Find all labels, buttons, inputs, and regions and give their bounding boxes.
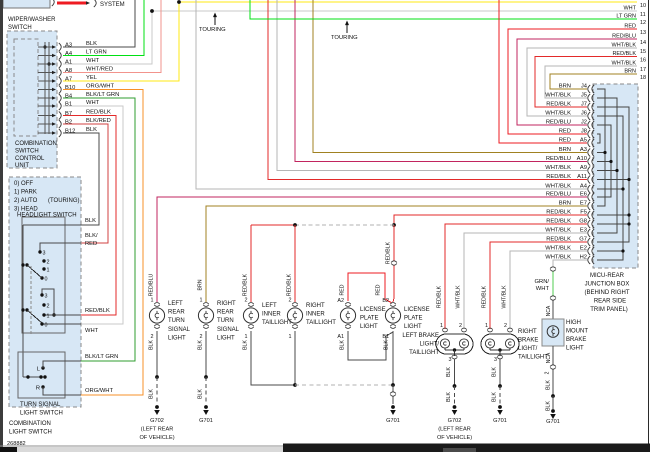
svg-text:WHT: WHT <box>86 100 100 106</box>
high mount connector from H2 <box>550 267 555 271</box>
TOURING arrow 2 <box>345 21 349 26</box>
svg-text:LIGHT: LIGHT <box>404 324 422 330</box>
svg-text:BRN: BRN <box>624 69 636 75</box>
svg-text:2: 2 <box>47 260 50 266</box>
junction box pin A9 (WHT/BLK) <box>588 167 590 175</box>
svg-text:SWITCH: SWITCH <box>8 25 32 31</box>
svg-text:SIGNAL: SIGNAL <box>217 327 240 333</box>
wire RED/BLK pin16 to J7 <box>535 57 637 108</box>
svg-text:BLK: BLK <box>492 367 498 377</box>
svg-text:BLK/LT GRN: BLK/LT GRN <box>85 354 118 360</box>
pin B4 (BLK/LT GRN) of wiper/washer switch <box>38 97 52 99</box>
svg-text:J8: J8 <box>581 129 587 135</box>
pin A1 (WHT) of wiper/washer switch <box>38 63 52 65</box>
junction box internal bus J5-A9-E3 <box>597 98 617 233</box>
svg-text:1: 1 <box>151 298 154 304</box>
svg-text:OF VEHICLE): OF VEHICLE) <box>437 435 472 441</box>
svg-text:J7: J7 <box>581 102 587 108</box>
svg-text:LEFT: LEFT <box>168 301 183 307</box>
junction box pin A5 (RED) <box>588 139 590 147</box>
wire RED/BLU from top edge to pin A10 <box>295 0 587 162</box>
wire YEL from A7 to pin 10 at right edge <box>63 2 637 81</box>
wire LT GRN from top edge to pin 12 right edge <box>250 0 637 19</box>
wire BLK license 1 to license 2 <box>348 331 393 360</box>
svg-text:RED/BLK: RED/BLK <box>287 273 293 296</box>
junction box pin A11 (RED/BLK) <box>588 176 590 184</box>
headlight switch bank2 contacts <box>40 293 43 296</box>
svg-text:A4: A4 <box>65 51 73 57</box>
svg-text:RED/BLK: RED/BLK <box>482 285 488 308</box>
svg-text:3: 3 <box>449 357 452 363</box>
svg-text:B4: B4 <box>65 94 73 100</box>
svg-text:G702: G702 <box>150 418 164 424</box>
svg-text:BLK: BLK <box>546 380 552 390</box>
svg-text:2: 2 <box>545 371 551 374</box>
svg-text:LICENSE: LICENSE <box>360 307 386 313</box>
svg-text:A10: A10 <box>577 156 587 162</box>
brake light bulbs <box>440 339 449 348</box>
svg-text:11: 11 <box>640 12 646 18</box>
headlight switch bank2 jog wire contact3 <box>42 289 54 315</box>
svg-text:BRAKE: BRAKE <box>566 337 586 343</box>
svg-text:B7: B7 <box>65 111 72 117</box>
svg-text:RED/BLU: RED/BLU <box>149 274 155 297</box>
brake light pin arcs <box>442 328 448 330</box>
junction box internal wiring J8-A5 <box>597 134 600 143</box>
svg-text:E7: E7 <box>580 201 587 207</box>
svg-text:TAILLIGHT: TAILLIGHT <box>409 350 439 356</box>
svg-text:B1: B1 <box>382 334 389 340</box>
svg-text:PLATE: PLATE <box>404 316 423 322</box>
svg-text:1: 1 <box>440 323 443 329</box>
junction box internal bus J4-A3-E7 <box>597 89 605 206</box>
svg-text:E2: E2 <box>580 246 587 252</box>
left page border bar <box>0 0 3 447</box>
wire BLK below license 2 <box>392 331 394 385</box>
svg-text:LIGHT/: LIGHT/ <box>420 342 440 348</box>
svg-text:(LEFT REAR: (LEFT REAR <box>141 427 174 433</box>
wire to high mount brake light <box>552 301 554 320</box>
wire WHT/BLK from top edge to pin A9 <box>277 0 587 171</box>
svg-text:1) PARK: 1) PARK <box>14 190 37 196</box>
svg-text:RED/BLK: RED/BLK <box>243 273 249 296</box>
svg-text:WHT/BLK: WHT/BLK <box>545 93 571 99</box>
svg-text:G701: G701 <box>199 418 213 424</box>
svg-text:G702: G702 <box>448 418 462 424</box>
wire RED/BLU pin E6 to left rear turn signal light <box>157 197 587 302</box>
svg-text:RED/BLU: RED/BLU <box>546 192 571 198</box>
svg-text:14: 14 <box>640 40 646 46</box>
headlight switch box <box>22 217 65 333</box>
svg-text:WHT: WHT <box>536 286 550 292</box>
brake light pin 3 <box>452 355 458 357</box>
wire RED to SYSTEM (off-page arrow) <box>57 2 87 5</box>
svg-text:A11: A11 <box>577 174 587 180</box>
svg-text:3: 3 <box>494 357 497 363</box>
turn signal internal wire L <box>43 361 81 368</box>
wire ORG/WHT from B10 down to turn signal switch R <box>63 90 143 396</box>
svg-text:0: 0 <box>45 277 48 283</box>
wire RED/BLU pin14 to J2 <box>517 39 637 125</box>
svg-text:2: 2 <box>504 323 507 329</box>
svg-text:BLK: BLK <box>340 340 346 350</box>
pin B10 (ORG/WHT) of wiper/washer switch <box>38 89 52 91</box>
svg-text:LIGHT: LIGHT <box>360 324 378 330</box>
svg-text:WHT/BLK: WHT/BLK <box>612 61 637 67</box>
junction box pin A4 (WHT/BLK) <box>588 185 590 193</box>
svg-text:HIGH: HIGH <box>566 320 581 326</box>
svg-text:INNER: INNER <box>306 312 325 318</box>
svg-text:(LEFT REAR: (LEFT REAR <box>438 427 471 433</box>
svg-text:NCA: NCA <box>546 352 552 363</box>
junction box pin E7 (BRN) <box>588 202 590 210</box>
brake light bulbs <box>485 339 494 348</box>
dashed splice wire <box>295 224 394 226</box>
junction box internal bus J2-A10-E6 <box>597 125 611 197</box>
wire WHT/BLK pin15 to J6 <box>527 48 637 116</box>
svg-text:2: 2 <box>200 334 203 340</box>
svg-text:WHT/RED: WHT/RED <box>86 67 113 73</box>
svg-text:PLATE: PLATE <box>360 316 379 322</box>
svg-text:RED/BLK: RED/BLK <box>86 110 111 116</box>
svg-text:WHT: WHT <box>86 58 100 64</box>
svg-text:B12: B12 <box>65 129 75 135</box>
svg-text:LIGHT: LIGHT <box>168 335 186 341</box>
MICU-REAR junction box dashed outline <box>593 84 638 268</box>
headlight switch bank1 contacts <box>38 250 41 253</box>
svg-text:JUNCTION BOX: JUNCTION BOX <box>585 282 630 288</box>
junction box pin A3 (BRN) <box>588 149 590 157</box>
svg-text:REAR: REAR <box>217 310 234 316</box>
svg-text:RED/BLK: RED/BLK <box>546 210 571 216</box>
svg-text:13: 13 <box>640 30 646 36</box>
svg-text:BLK: BLK <box>384 340 390 350</box>
svg-text:BLK: BLK <box>86 127 97 133</box>
wire RED/BLK pin F5 to license plate lights <box>394 215 587 260</box>
svg-text:E3: E3 <box>580 228 587 234</box>
svg-text:BLK/: BLK/ <box>85 233 98 239</box>
turn signal switch contact R <box>41 385 44 388</box>
dashed BLK to G702 <box>156 377 158 404</box>
svg-text:E6: E6 <box>580 192 587 198</box>
junction dot license ground <box>391 383 395 387</box>
svg-text:RED/BLK: RED/BLK <box>612 51 636 57</box>
svg-text:BLK: BLK <box>446 367 452 377</box>
wire WHT/BLK pin H2 to high mount brake light <box>553 260 587 266</box>
connector below high mount with pin 2 <box>550 365 555 369</box>
wire WHT/BLK pin17 to J5 <box>545 66 637 98</box>
wire BLK below left rear turn signal <box>156 331 158 377</box>
turn signal light switch box <box>18 352 65 398</box>
svg-text:ORG/WHT: ORG/WHT <box>85 388 113 394</box>
svg-text:RED: RED <box>624 24 636 30</box>
svg-text:2: 2 <box>47 304 50 310</box>
svg-text:ORG/WHT: ORG/WHT <box>86 84 114 90</box>
svg-text:COMBINATION: COMBINATION <box>9 421 51 427</box>
wire RED/BLK down to left inner taillight <box>250 225 252 302</box>
wire RED/BLK to inner taillights <box>251 224 295 226</box>
svg-text:H2: H2 <box>580 255 587 261</box>
high mount brake light box <box>542 319 564 346</box>
svg-text:1: 1 <box>245 334 248 340</box>
svg-text:RED/BLK: RED/BLK <box>85 308 110 314</box>
svg-text:15: 15 <box>640 49 646 55</box>
wire RED/BLK pin G7 to right brake light <box>490 242 587 329</box>
pin B7 (RED/BLK) of wiper/washer switch <box>38 115 52 117</box>
svg-text:WHT/BLK: WHT/BLK <box>545 246 571 252</box>
wire WHT/BLK pin E2 to right brake light <box>510 251 587 329</box>
svg-text:LT GRN: LT GRN <box>86 50 107 56</box>
brake light pin arcs <box>487 328 493 330</box>
svg-text:TAILLIGHT: TAILLIGHT <box>518 355 548 361</box>
wire RED from top edge to pin A5 <box>499 0 587 143</box>
ground G701 license <box>391 405 395 409</box>
svg-text:SIGNAL: SIGNAL <box>168 327 191 333</box>
svg-text:WHT/BLK: WHT/BLK <box>545 111 571 117</box>
junction box internal bus J7-A11-F5-G8-G7 <box>597 107 629 242</box>
wire WHT from B1 down to headlight switch <box>63 106 123 324</box>
svg-text:TURN SIGNAL: TURN SIGNAL <box>20 402 61 408</box>
headlight switch bank2 pivot and arm <box>21 308 24 311</box>
svg-text:J2: J2 <box>581 120 587 126</box>
svg-text:RIGHT: RIGHT <box>217 301 236 307</box>
junction box pin E2 (WHT/BLK) <box>588 247 590 255</box>
svg-text:B2: B2 <box>382 298 389 304</box>
svg-text:LIGHT SWITCH: LIGHT SWITCH <box>20 411 63 417</box>
wire RED pin13 to junction box J8 <box>508 29 637 134</box>
svg-text:SYSTEM: SYSTEM <box>100 2 125 8</box>
bottom scrollbar <box>283 444 650 448</box>
svg-text:BRN: BRN <box>559 201 571 207</box>
svg-text:WHT/BLK: WHT/BLK <box>545 184 571 190</box>
left inner taillight bulb <box>248 303 254 305</box>
svg-text:BLK: BLK <box>149 389 155 399</box>
svg-text:TAILLIGHT: TAILLIGHT <box>262 320 292 326</box>
svg-text:WIPER/WASHER: WIPER/WASHER <box>8 17 56 23</box>
dashed BLK to G701 right turn <box>205 377 207 404</box>
svg-text:RED: RED <box>340 284 346 295</box>
wire BRN pin E7 to right rear turn signal light <box>206 206 587 302</box>
svg-text:LIGHT SWITCH: LIGHT SWITCH <box>9 430 52 436</box>
svg-text:WHT/BLK: WHT/BLK <box>456 285 462 309</box>
pin A7 (YEL) of wiper/washer switch <box>38 80 52 82</box>
svg-text:G7: G7 <box>579 237 587 243</box>
wire BLK below right rear turn signal <box>205 331 207 377</box>
svg-text:J6: J6 <box>581 111 587 117</box>
svg-text:12: 12 <box>640 20 646 26</box>
connector arc on top-left box <box>52 0 54 6</box>
junction box pin J4 (BRN) <box>588 85 590 93</box>
svg-text:WHT/BLK: WHT/BLK <box>545 255 571 261</box>
svg-text:WHT/BLK: WHT/BLK <box>612 43 637 49</box>
svg-text:INNER: INNER <box>262 312 281 318</box>
svg-text:WHT/BLK: WHT/BLK <box>502 285 508 309</box>
svg-text:LT GRN: LT GRN <box>616 14 636 20</box>
wiper/washer switch inner dashed box <box>14 39 38 136</box>
svg-text:GRN/: GRN/ <box>535 279 550 285</box>
svg-text:NCA: NCA <box>546 305 552 316</box>
svg-text:RIGHT: RIGHT <box>518 329 537 335</box>
junction dot WHT wire <box>150 9 154 13</box>
svg-text:BRN: BRN <box>559 84 571 90</box>
svg-text:A5: A5 <box>580 138 587 144</box>
svg-text:REAR SIDE: REAR SIDE <box>594 299 626 305</box>
svg-text:A3: A3 <box>580 147 587 153</box>
svg-text:G701: G701 <box>386 418 400 424</box>
wire BRN from top edge to pin A3 <box>313 0 587 153</box>
svg-text:BLK: BLK <box>243 340 249 350</box>
brake light wire BLK to ground <box>454 359 456 386</box>
junction dot F5 taillight feed <box>392 223 396 227</box>
svg-text:3: 3 <box>45 294 48 300</box>
svg-text:A9: A9 <box>580 165 587 171</box>
svg-text:17: 17 <box>640 67 646 73</box>
junction dot taillight ground bus <box>293 383 297 387</box>
connector on GRN/WHT <box>550 296 555 300</box>
wire WHT from A1 to pin 11 at right edge <box>63 11 637 64</box>
svg-text:LEFT BRAKE: LEFT BRAKE <box>402 333 439 339</box>
ground G701 brake <box>498 405 502 409</box>
svg-text:16: 16 <box>640 58 646 64</box>
svg-text:BLK: BLK <box>198 340 204 350</box>
svg-text:BLK: BLK <box>446 392 452 402</box>
turn signal switch contact L <box>41 366 44 369</box>
wire BRN pin18 to J4 <box>550 74 637 89</box>
junction box pin J7 (RED/BLK) <box>588 103 590 111</box>
svg-text:LIGHT: LIGHT <box>566 346 584 352</box>
svg-text:LIGHT/: LIGHT/ <box>518 346 538 352</box>
svg-text:(TOURING): (TOURING) <box>48 198 80 204</box>
svg-text:0: 0 <box>45 323 48 329</box>
headlight switch common bus <box>22 225 24 377</box>
wire BLK/LT GRN from B4 down to turn signal switch L <box>63 98 135 361</box>
junction box pin G7 (RED/BLK) <box>588 238 590 246</box>
turn signal pivot arm <box>23 376 45 378</box>
svg-text:TOURING: TOURING <box>199 27 226 33</box>
svg-text:COMBINATION: COMBINATION <box>15 141 57 147</box>
brake light wire BLK to ground <box>499 359 501 386</box>
svg-text:(BEHIND RIGHT: (BEHIND RIGHT <box>585 290 630 296</box>
svg-text:10: 10 <box>640 3 646 9</box>
svg-text:R: R <box>36 386 40 392</box>
svg-text:2) AUTO: 2) AUTO <box>14 198 38 204</box>
wire below high mount <box>552 346 554 365</box>
svg-text:3: 3 <box>43 251 46 257</box>
svg-text:TAILLIGHT: TAILLIGHT <box>306 320 336 326</box>
right rear turn signal light bulb <box>203 303 209 305</box>
junction box pin J2 (RED/BLU) <box>588 121 590 129</box>
junction dot on bus A1 row <box>47 62 50 65</box>
high mount bulb <box>547 326 559 338</box>
junction box pin E3 (WHT/BLK) <box>588 229 590 237</box>
left rear turn signal light bulb <box>154 303 160 305</box>
wire BLK below right inner taillight <box>294 331 296 385</box>
svg-text:HEADLIGHT SWITCH: HEADLIGHT SWITCH <box>17 213 77 219</box>
wire WHT/BLK pin E3 to left brake light <box>464 233 587 329</box>
junction dot bank2 <box>52 313 55 316</box>
svg-text:2: 2 <box>245 298 248 304</box>
ground G702 <box>155 405 159 409</box>
junction box pin G8 (RED/BLK) <box>588 220 590 228</box>
junction dot on bus A3 row <box>43 45 46 48</box>
svg-text:1: 1 <box>47 268 50 274</box>
svg-text:YEL: YEL <box>86 75 98 81</box>
svg-text:LICENSE: LICENSE <box>404 307 430 313</box>
bottom page border <box>0 445 650 447</box>
svg-text:A1: A1 <box>337 334 344 340</box>
right page border <box>648 0 650 447</box>
svg-text:BRN: BRN <box>559 147 571 153</box>
svg-text:1: 1 <box>289 334 292 340</box>
TOURING arrow 1 <box>213 13 217 18</box>
wire RED/BLK from B7 down to headlight switch <box>63 116 116 316</box>
junction box pin F5 (RED/BLK) <box>588 211 590 219</box>
svg-text:G8: G8 <box>579 219 587 225</box>
inline connector on license light wire <box>393 225 394 302</box>
pin B2 (BLK/RED) of wiper/washer switch <box>38 123 52 125</box>
svg-text:J5: J5 <box>581 93 587 99</box>
svg-text:MOUNT: MOUNT <box>566 329 588 335</box>
junction dot left turn signal ground <box>155 375 159 379</box>
top-left partial component box <box>3 0 50 8</box>
svg-text:RED: RED <box>376 284 382 295</box>
svg-text:UNIT: UNIT <box>15 163 29 169</box>
junction box internal bus J6-A4-E2-H2 <box>597 116 623 260</box>
svg-text:RED/BLK: RED/BLK <box>546 174 571 180</box>
junction dot right turn signal ground <box>204 375 208 379</box>
svg-text:A1: A1 <box>65 60 72 66</box>
wire RED/BLK down to right inner taillight <box>294 225 296 302</box>
dashed ground bus to G701 <box>295 384 393 386</box>
svg-text:RED/BLU: RED/BLU <box>546 156 571 162</box>
svg-text:WHT: WHT <box>85 328 99 334</box>
junction box pin A10 (RED/BLU) <box>588 158 590 166</box>
svg-text:BLK: BLK <box>546 401 552 411</box>
wire WHT/RED from A8 to top edge <box>63 0 161 73</box>
wiper switch internal bus lines <box>44 42 46 134</box>
svg-text:OF VEHICLE): OF VEHICLE) <box>139 435 174 441</box>
svg-text:WHT/BLK: WHT/BLK <box>545 165 571 171</box>
headlight switch internal wire BLK/RED to contact 3 <box>40 243 81 252</box>
wire GRN/WHT high mount <box>552 272 554 296</box>
headlight switch internal wire contact0 to WHT <box>42 323 81 325</box>
svg-text:BLK: BLK <box>198 389 204 399</box>
headlight switch bank1 pivot and arm <box>21 263 24 266</box>
right inner taillight bulb <box>292 303 298 305</box>
svg-text:RED/BLK: RED/BLK <box>546 237 571 243</box>
wire BLK below left inner taillight <box>251 331 295 385</box>
junction box pin J5 (WHT/BLK) <box>588 94 590 102</box>
svg-text:18: 18 <box>640 75 646 81</box>
headlight switch internal wire to contact1/RED-BLK <box>44 314 81 316</box>
svg-text:F5: F5 <box>580 210 587 216</box>
svg-text:1: 1 <box>200 298 203 304</box>
svg-text:TOURING: TOURING <box>331 35 358 41</box>
pin A3 (BLK) of wiper/washer switch <box>38 46 52 48</box>
junction box pin J6 (WHT/BLK) <box>588 112 590 120</box>
svg-text:BLK: BLK <box>149 340 155 350</box>
wire BLK from A3 to top edge <box>63 0 135 47</box>
svg-text:BRAKE: BRAKE <box>518 338 538 344</box>
wiper/washer switch outer dashed box (combination switch control unit) <box>7 31 57 168</box>
pin A8 (WHT/RED) of wiper/washer switch <box>38 72 52 74</box>
brake light housing <box>436 334 473 354</box>
svg-text:A3: A3 <box>65 43 72 49</box>
svg-text:RED/BLU: RED/BLU <box>612 34 636 40</box>
svg-text:LIGHT: LIGHT <box>217 335 235 341</box>
pin B12 (BLK) of wiper/washer switch <box>38 132 52 134</box>
svg-text:BLK: BLK <box>492 392 498 402</box>
